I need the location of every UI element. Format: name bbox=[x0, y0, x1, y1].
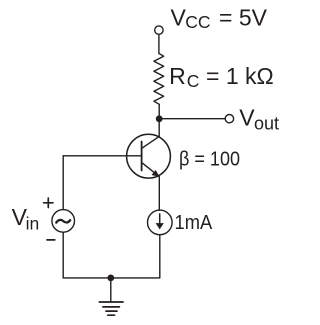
current source I1 circle bbox=[148, 210, 173, 235]
wire node to Vout bbox=[159, 118, 225, 120]
wire emitter to current source bbox=[158, 176, 160, 210]
wire left vertical bbox=[62, 156, 64, 210]
wire collector bbox=[158, 119, 160, 137]
plus sign bbox=[44, 198, 53, 207]
wire resistor to node bbox=[158, 104, 160, 119]
ground bar 1 bbox=[99, 301, 123, 303]
resistor RC bbox=[154, 54, 164, 105]
svg-text:= 5V: = 5V bbox=[219, 5, 268, 31]
wire base bbox=[63, 155, 141, 157]
sine symbol bbox=[56, 220, 70, 223]
ground bar 4 bbox=[108, 314, 115, 316]
svg-text:out: out bbox=[254, 114, 279, 134]
ground stem bbox=[110, 278, 112, 302]
emitter arrowhead bbox=[152, 171, 158, 176]
minus sign bbox=[47, 239, 55, 241]
ground bar 3 bbox=[106, 310, 117, 312]
svg-text:β = 100: β = 100 bbox=[179, 148, 240, 170]
current source arrow shaft bbox=[159, 214, 161, 225]
svg-text:in: in bbox=[26, 214, 40, 234]
node dot collector bbox=[156, 115, 163, 122]
transistor base bar bbox=[141, 142, 143, 171]
svg-text:= 1 kΩ: = 1 kΩ bbox=[206, 63, 274, 89]
wire Vin to bottom bbox=[62, 232, 64, 278]
terminal Vout bbox=[225, 115, 233, 123]
svg-text:V: V bbox=[171, 5, 187, 31]
transistor Q1 circle bbox=[127, 134, 171, 178]
node dot ground bbox=[107, 275, 114, 282]
ground bar 2 bbox=[103, 306, 120, 308]
svg-text:CC: CC bbox=[185, 12, 210, 32]
source Vin circle bbox=[52, 210, 75, 233]
wire bottom horizontal bbox=[63, 277, 160, 279]
wire current source to bottom bbox=[159, 235, 161, 278]
transistor emitter diagonal bbox=[142, 162, 159, 176]
svg-text:1mA: 1mA bbox=[175, 212, 213, 234]
svg-text:C: C bbox=[187, 71, 200, 91]
svg-text:V: V bbox=[239, 104, 255, 130]
wire VCC to resistor bbox=[158, 35, 160, 54]
terminal VCC bbox=[155, 26, 163, 34]
current source arrowhead bbox=[156, 223, 164, 229]
transistor collector diagonal bbox=[142, 136, 160, 148]
svg-text:R: R bbox=[169, 63, 186, 89]
